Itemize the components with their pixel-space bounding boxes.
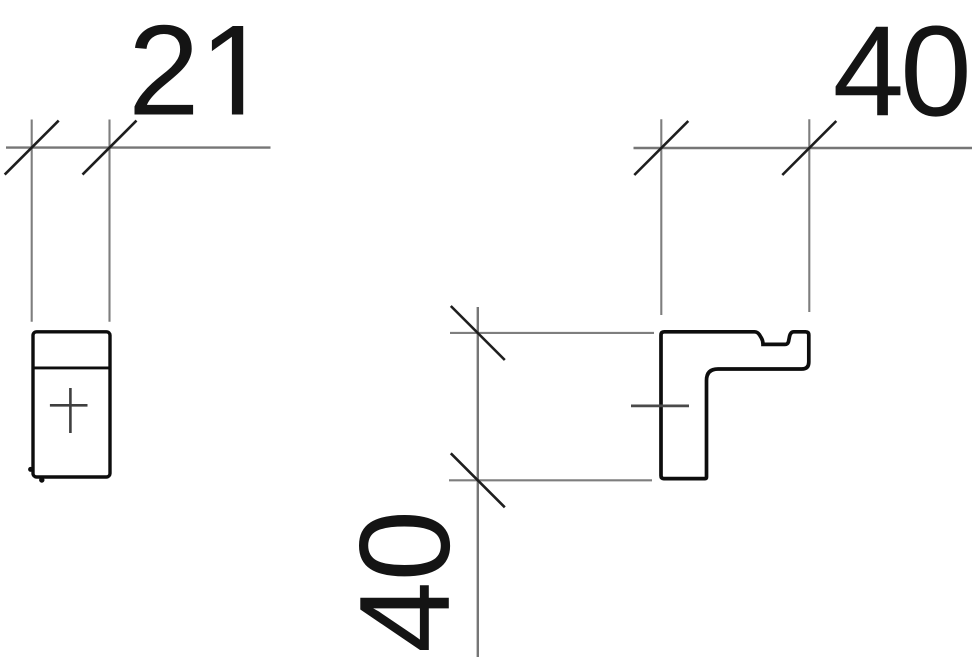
tick mark top (40 vertical): [451, 306, 505, 360]
extension line bottom (40 vertical): [449, 479, 652, 481]
corner artifact dots (front view bottom-left): [28, 467, 44, 483]
tick mark right (21): [83, 121, 137, 175]
tick mark right (40 top): [782, 121, 836, 175]
dimension text 40 (top right): [836, 26, 967, 117]
tick mark left (21): [5, 121, 59, 175]
dimension line (40 vertical): [477, 307, 479, 657]
tick mark bottom (40 vertical): [451, 453, 505, 507]
hook front view plate outline: [33, 332, 110, 477]
dimension text 40 (vertical): [359, 515, 450, 650]
dimension text 21: [135, 25, 244, 115]
dimension line (21): [6, 146, 271, 148]
hole center mark (plus, front view): [50, 388, 88, 433]
hook side view profile outline: [661, 332, 809, 479]
dimension line (40 top): [634, 147, 973, 149]
extension line left (40 top): [660, 119, 662, 315]
extension line top (40 vertical): [450, 332, 654, 334]
extension line right (21): [108, 120, 110, 322]
extension line right (40 top): [808, 119, 810, 312]
plate divider line (front view): [33, 366, 110, 369]
hole center line (side view): [631, 404, 689, 407]
tick mark left (40 top): [634, 121, 688, 175]
extension line left (21): [31, 120, 33, 322]
